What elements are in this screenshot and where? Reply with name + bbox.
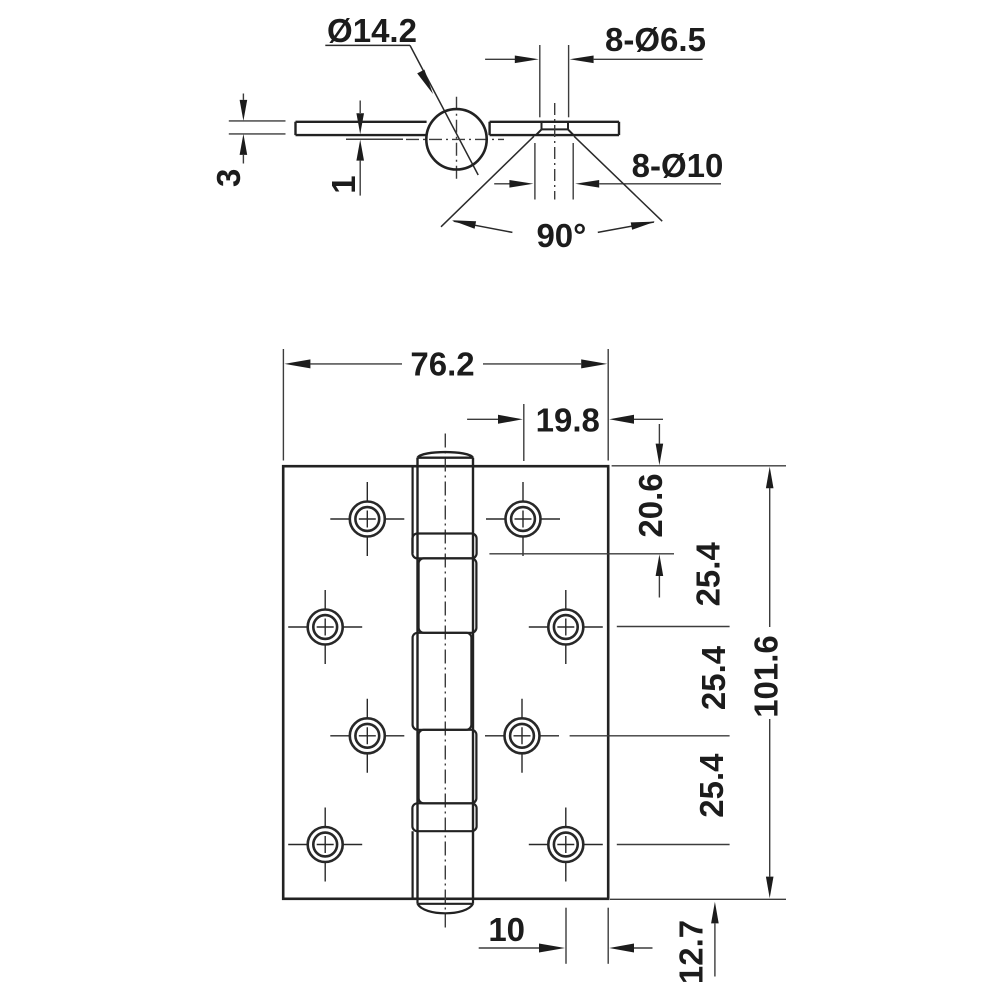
- dimension 19.8 right shaft: [634, 418, 663, 420]
- hole vertical centerline: [554, 103, 556, 200]
- svg-text:1: 1: [325, 175, 362, 193]
- knuckle horizontal centerline: [406, 138, 504, 140]
- knuckle circle: [426, 109, 486, 169]
- countersunk hole right wall: [567, 122, 569, 130]
- top knuckle left outer line: [412, 467, 414, 553]
- dimension 8-Ø6.5 right arrow: [570, 56, 594, 64]
- countersunk hole left wall: [541, 122, 543, 130]
- screw hole r2c4: [529, 590, 603, 664]
- dimension 8-Ø10 left extension line: [534, 143, 536, 200]
- leader Ø14.2 diagonal line: [410, 45, 478, 175]
- countersink cone left line: [441, 136, 534, 227]
- dimension 10 left arrow: [539, 944, 565, 953]
- dimension 3 upper arrow: [240, 100, 248, 121]
- dimension 10 left shaft: [479, 947, 540, 949]
- bottom knuckle left outer line: [412, 831, 414, 899]
- dimension 76.2 right arrow: [581, 359, 607, 368]
- screw hole r1c3: [486, 482, 560, 556]
- extension line row3: [570, 735, 730, 737]
- svg-text:Ø14.2: Ø14.2: [327, 12, 417, 49]
- svg-text:90°: 90°: [536, 217, 586, 254]
- svg-text:19.8: 19.8: [536, 402, 600, 439]
- dimension 10 right shaft: [634, 947, 653, 949]
- extension line plate bottom right: [610, 898, 786, 900]
- dimension 8-Ø10 right shaft: [599, 183, 721, 185]
- pin top dome: [418, 452, 474, 458]
- knuckle segment C: [413, 633, 472, 730]
- dimension 12.7 shaft: [714, 923, 716, 976]
- extension line row2: [617, 626, 730, 628]
- pin centerline: [444, 434, 446, 932]
- dimension 8-Ø6.5 left shaft: [485, 58, 516, 60]
- dimension 8-Ø6.5 left arrow: [515, 56, 539, 64]
- dimension 3 upper shaft: [242, 94, 244, 100]
- dimension 19.8 right arrow: [609, 415, 634, 424]
- left leaf side view: [296, 122, 427, 135]
- angle 90 left arrow tail: [454, 221, 513, 232]
- dimension 8-Ø10 left shaft: [494, 183, 510, 185]
- svg-text:101.6: 101.6: [748, 635, 785, 718]
- dimension 3 extension line top: [229, 120, 286, 122]
- svg-text:76.2: 76.2: [410, 346, 474, 383]
- pin bottom cap sides: [418, 899, 474, 904]
- dimension 10 extension line left: [565, 908, 567, 964]
- dimension 8-Ø6.5 right shaft: [594, 58, 703, 60]
- extension line plate top right: [612, 465, 786, 467]
- angle 90 right arrow tail: [598, 222, 654, 232]
- dimension 1 upper arrow: [356, 113, 364, 134]
- dimension 8-Ø10 left arrow: [509, 180, 533, 188]
- screw hole r1c2: [330, 482, 404, 556]
- screw hole r3c3: [485, 699, 559, 773]
- dimension 20.6 upper shaft: [658, 424, 660, 444]
- screw hole r4c1: [288, 808, 362, 882]
- dimension 76.2 line left segment: [310, 363, 402, 365]
- leader Ø14.2 arrowhead: [417, 70, 433, 94]
- angle 90 left arrowhead: [452, 220, 476, 228]
- knuckle segment B: [419, 558, 477, 632]
- dimension 1 lower shaft: [359, 161, 361, 196]
- extension line ring bottom: [489, 553, 674, 555]
- dimension 10 right arrow: [609, 944, 634, 953]
- dimension 101.6 upper arrow: [766, 467, 774, 489]
- dimension 3 lower shaft: [242, 155, 244, 164]
- dimension 10 extension line right: [607, 908, 609, 964]
- dimension 8-Ø6.5 right extension line: [568, 45, 570, 117]
- svg-text:3: 3: [210, 169, 247, 187]
- svg-text:20.6: 20.6: [632, 473, 669, 537]
- right leaf side view: [490, 122, 619, 135]
- countersink left flare: [536, 129, 542, 135]
- leader Ø14.2 underline: [325, 44, 410, 46]
- lower leaf thin edge line: [346, 138, 403, 140]
- dimension 20.6 lower arrow: [656, 554, 664, 576]
- svg-text:25.4: 25.4: [695, 645, 732, 710]
- dimension 8-Ø6.5 left extension line: [539, 45, 541, 117]
- knuckle segment D: [419, 730, 477, 804]
- dimension 3 extension line bottom: [229, 133, 286, 135]
- screw hole r4c4: [529, 808, 603, 882]
- screw hole r2c1: [288, 590, 362, 664]
- dimension 20.6 upper arrow: [656, 444, 664, 466]
- dimension 1 upper shaft: [359, 101, 361, 114]
- svg-text:25.4: 25.4: [693, 753, 730, 818]
- dimension 76.2 right extension line: [607, 349, 609, 461]
- pin bottom dome: [418, 904, 474, 914]
- hinge plate outline: [283, 466, 608, 899]
- dimension 101.6 lower arrow: [766, 877, 774, 899]
- dimension 20.6 lower shaft: [658, 576, 660, 598]
- pin top dome chord: [418, 457, 474, 459]
- svg-text:8-Ø10: 8-Ø10: [632, 147, 724, 184]
- svg-text:25.4: 25.4: [689, 542, 726, 607]
- dimension 3 lower arrow: [240, 134, 248, 155]
- dimension 76.2 left extension line: [282, 349, 284, 461]
- extension line row4: [617, 844, 730, 846]
- countersink cone right line: [574, 136, 662, 221]
- pin bottom cap chord: [418, 903, 474, 905]
- dimension 19.8 extension line: [523, 404, 525, 461]
- dimension 8-Ø10 right arrow: [575, 180, 599, 188]
- dimension 76.2 left arrow: [284, 359, 310, 368]
- angle 90 right arrowhead: [631, 222, 655, 230]
- bearing ring upper: [412, 534, 476, 559]
- bearing ring lower: [412, 803, 476, 831]
- knuckle vertical centerline: [456, 97, 458, 182]
- countersink right flare: [568, 129, 574, 135]
- dimension 101.6 line lower segment: [769, 719, 771, 877]
- svg-text:10: 10: [488, 911, 525, 948]
- dimension 19.8 left arrow: [498, 415, 523, 424]
- dimension 76.2 line right segment: [483, 363, 581, 365]
- knuckle barrel right side: [472, 458, 474, 899]
- svg-text:8-Ø6.5: 8-Ø6.5: [605, 21, 706, 58]
- svg-text:12.7: 12.7: [672, 920, 709, 984]
- dimension 19.8 left shaft: [467, 418, 499, 420]
- countersunk hole shoulder line: [542, 128, 569, 130]
- dimension 101.6 line upper segment: [769, 488, 771, 627]
- dimension 12.7 arrow: [711, 902, 719, 924]
- dimension 1 lower arrow: [356, 140, 364, 161]
- knuckle barrel left side: [416, 458, 418, 899]
- screw hole r3c2: [330, 699, 404, 773]
- dimension 8-Ø10 right extension line: [572, 143, 574, 200]
